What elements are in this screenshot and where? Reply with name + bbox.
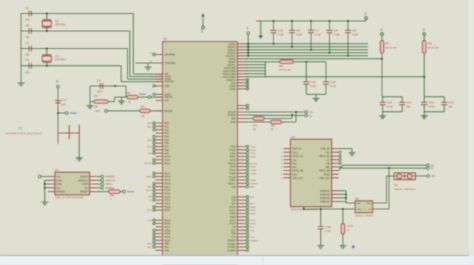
wire C6 to bus (291, 33, 293, 47)
wire R9 out (120, 191, 123, 193)
pin U1 right PGMD1 (238, 243, 245, 245)
svg-text:SHIELD1: SHIELD1 (320, 190, 331, 193)
svg-text:NC: NC (85, 187, 89, 190)
pin stub right lower power (245, 79, 247, 81)
pin U1 left PA17 (156, 186, 163, 188)
pin U1 right AD5 (238, 196, 245, 198)
pin U1 right VDDOUT (238, 55, 245, 57)
wire XOUT drop (129, 31, 131, 77)
pin U1 left PA25 (156, 219, 163, 221)
pin U1 left PA15 (156, 179, 163, 181)
pin E1 left GND (48, 183, 55, 185)
ground under R5 wire (118, 97, 125, 104)
svg-text:C1: C1 (97, 79, 101, 83)
pin S2 left 1 (350, 202, 355, 204)
capacitor C15 (303, 82, 309, 84)
svg-text:VBUS_BB: VBUS_BB (319, 170, 330, 173)
pin U4 left GND_A1 (283, 148, 290, 150)
svg-text:PCK0: PCK0 (250, 167, 256, 169)
wire XOUT32 drop (120, 66, 122, 82)
wire S2 riser 2 (388, 168, 390, 209)
pin U1 ERASE (156, 110, 163, 112)
ground JTAGSEL (145, 63, 152, 70)
pin stub right lower power (245, 85, 247, 87)
svg-text:GND_B1: GND_B1 (320, 148, 330, 151)
wire C15 drop (305, 62, 307, 82)
wire VDDCORE tie stub 4 (245, 70, 266, 72)
resistor R7 (380, 41, 384, 54)
wire SHIELD1 (339, 190, 346, 192)
pin U1 left PA29 (156, 233, 163, 235)
pin U1 left PA23 (156, 206, 163, 208)
svg-text:P1: P1 (19, 127, 23, 131)
pin U1 right TWCK1 (238, 182, 245, 184)
pin U1 left PA28 (156, 229, 163, 231)
wire cap pair rail top C13 (424, 96, 444, 98)
wire VDDCORE tie stub 2 (245, 64, 266, 66)
svg-text:SAM001 - PME0B020: SAM001 - PME0B020 (394, 188, 416, 191)
svg-text:CO: CO (326, 159, 330, 162)
svg-text:D+: D+ (310, 110, 314, 114)
svg-text:TXD1: TXD1 (250, 153, 256, 155)
svg-text:ERASE: ERASE (165, 110, 174, 113)
pin E1 left Key (48, 187, 55, 189)
pin U1 right PCK0 (238, 166, 245, 168)
capacitor C8 (329, 21, 331, 30)
resistor R5 (127, 95, 138, 99)
svg-text:BR2032-GNT: BR2032-GNT (279, 70, 292, 72)
wire XIN drop (132, 14, 134, 75)
svg-text:TST: TST (165, 100, 170, 103)
ground U4 GND_B (349, 149, 356, 156)
wire USB line A (339, 166, 342, 168)
svg-text:SHIELD4: SHIELD4 (320, 201, 331, 204)
pin U1 DDP (238, 118, 245, 120)
right edge scrollbar hint (469, 0, 474, 256)
wire E1 NC out (97, 187, 101, 189)
svg-text:RXD2: RXD2 (324, 173, 331, 176)
pin U1 left PA8 (156, 149, 163, 151)
resistor R6 (422, 41, 426, 54)
svg-text:C10: C10 (387, 101, 393, 105)
junction power tap (247, 49, 249, 51)
pin U1 NRST (156, 93, 163, 95)
junction C9 (347, 55, 349, 57)
pin E1 right SWDIO (90, 176, 97, 178)
wire XIN32 drop (127, 49, 129, 80)
wire S2 right to risers (378, 202, 387, 204)
wire NRST to chip (151, 96, 163, 98)
svg-text:RD: RD (149, 197, 153, 199)
junction E1 gnd2 (44, 187, 46, 189)
pin S2 right 1 (373, 202, 378, 204)
svg-text:R2: R2 (94, 94, 98, 98)
pin U1 right VDDIO4 (238, 52, 245, 54)
pin U1 right TIOB0 (238, 172, 245, 174)
pin U1 right VDDIO (238, 43, 245, 45)
wire cap pair rail bottom (382, 105, 384, 111)
svg-text:GND: GND (56, 179, 62, 182)
svg-text:3: 3 (56, 80, 58, 84)
wire DFSDM (245, 114, 305, 117)
wire C16 drop (325, 62, 327, 82)
wire VDD bus 2 (245, 46, 369, 48)
wire row XIN32 (21, 48, 128, 50)
pin E1 left GND (48, 179, 55, 181)
pin U1 left PA20 (156, 196, 163, 198)
wire R10 drop (342, 209, 344, 224)
wire to Wake terminal (58, 112, 65, 114)
pin U1 left PA13 (156, 172, 163, 174)
pin U1 right VDDIO2 (238, 46, 245, 48)
pin stub right mid (238, 108, 245, 110)
pin U1 right PB13 (238, 216, 245, 218)
svg-text:22p: 22p (406, 106, 411, 109)
pin U4 right VBUS_BA (332, 155, 339, 157)
wire R5 to terminal (138, 96, 148, 98)
pin U1 left PA1 (156, 125, 163, 127)
svg-text:R6: R6 (428, 42, 432, 46)
pin stub right mid (238, 105, 245, 107)
pin U1 left PA14 (156, 176, 163, 178)
wire RESET to R9 (97, 191, 109, 193)
junction X2 bottom (46, 30, 48, 32)
resistor R4 (253, 117, 264, 121)
ground left rail (18, 79, 25, 86)
svg-text:SWDIO: SWDIO (80, 176, 88, 179)
wire R6 column (423, 53, 425, 96)
pin U1 right RXD1 (238, 156, 245, 158)
wire C17 column (57, 88, 59, 131)
wire C14 stub (443, 97, 445, 102)
resistor R2 (94, 100, 108, 104)
svg-text:D-: D- (310, 114, 313, 118)
pin U1 left PB1 (156, 246, 163, 248)
ground arrow decoupling rail (258, 21, 263, 39)
terminal D- (305, 114, 308, 117)
svg-text:10uF: 10uF (97, 91, 103, 94)
terminal 3v3 erase (105, 110, 108, 113)
svg-text:SCK: SCK (147, 146, 152, 148)
svg-text:C3: C3 (25, 58, 29, 62)
svg-text:GND3: GND3 (229, 88, 236, 91)
svg-text:TDO: TDO (250, 230, 255, 232)
pin U1 right PGMD0 (238, 239, 245, 241)
power terminal 3V3 above C17 (57, 85, 60, 88)
wire U4 GND_B to ground (339, 148, 352, 150)
junction C8 (328, 52, 330, 54)
pin U4 left VBUS_AA (283, 155, 290, 157)
pin U1 right TCLK0 (238, 176, 245, 178)
svg-text:GND_A12: GND_A12 (292, 177, 304, 180)
junction C12 rail (272, 20, 274, 22)
svg-text:C8: C8 (334, 29, 338, 33)
terminal U4 right (339, 162, 341, 164)
pin U1 left PA5 (156, 139, 163, 141)
power terminal 3V3 R7 (381, 33, 384, 36)
pin U1 right GND (238, 82, 245, 84)
ground C13 (421, 112, 428, 119)
pin U4 right SHIELD4 (332, 201, 339, 203)
resistor R3 (271, 120, 282, 124)
pin U4 right RXD2 (332, 173, 339, 175)
svg-text:CO1: CO1 (292, 159, 298, 162)
svg-text:TIOB0: TIOB0 (250, 173, 257, 175)
svg-text:22p: 22p (25, 70, 30, 74)
pin U1 left PA10 (156, 156, 163, 158)
pin U1 right TMS (238, 233, 245, 235)
svg-text:RXD: RXD (292, 173, 297, 176)
svg-text:R3: R3 (271, 124, 275, 128)
pin U1 NRSTB (156, 96, 163, 98)
svg-text:DAC0: DAC0 (250, 206, 257, 209)
capacitor C4 (29, 11, 31, 17)
wire DFSDP (245, 111, 305, 113)
junction C6 rail (291, 20, 293, 22)
wire S2 left row (304, 208, 350, 210)
terminal U4 right (339, 159, 341, 161)
svg-text:GNDdet: GNDdet (56, 191, 65, 194)
svg-text:DDM: DDM (231, 121, 236, 124)
capacitor C6 (291, 21, 293, 30)
svg-text:R1: R1 (141, 105, 145, 109)
svg-text:0.1uF: 0.1uF (315, 34, 322, 37)
junction power tap (247, 52, 249, 54)
wire C1 right drop (125, 86, 127, 97)
wire E1 Vcc (41, 176, 48, 178)
svg-text:0.1uF: 0.1uF (296, 34, 303, 37)
svg-text:0.1uF: 0.1uF (387, 106, 394, 109)
pin U4 left RXD (283, 173, 290, 175)
pin U1 left PA3 (156, 132, 163, 134)
capacitor C13 (421, 102, 427, 104)
terminal VBUS (427, 175, 430, 178)
pin U1 right VDDCORE3 (238, 73, 245, 75)
junction power tap (247, 55, 249, 57)
svg-text:VBG: VBG (165, 85, 170, 88)
svg-text:RESET: RESET (80, 191, 89, 194)
svg-text:Wake: Wake (139, 92, 146, 96)
svg-text:PGMD0: PGMD0 (250, 240, 259, 242)
junction line B tap (388, 167, 390, 169)
svg-text:PCK1: PCK1 (250, 220, 256, 222)
svg-text:/SWCLK: /SWCLK (105, 178, 115, 182)
pin U4 right DBL (332, 166, 339, 168)
wire decoupling rail (256, 20, 366, 22)
svg-text:0.1uF: 0.1uF (352, 34, 359, 37)
pin U1 ADVREF (156, 54, 163, 56)
terminal line A (426, 164, 429, 167)
origin marker blue dot (352, 245, 355, 248)
capacitor C5 (29, 28, 31, 34)
pin U1 left PA2 (156, 129, 163, 131)
svg-text:AD4: AD4 (231, 186, 236, 189)
svg-text:3: 3 (381, 28, 383, 32)
component S3 usb connector (394, 173, 415, 180)
junction C17 node (57, 112, 59, 114)
svg-text:DA1: DA1 (292, 162, 297, 165)
pin U1 right AD6 (238, 199, 245, 201)
svg-text:PA24: PA24 (165, 209, 171, 212)
pin U1 left PA26 (156, 223, 163, 225)
junction C1 right (114, 85, 116, 87)
ground E1 (41, 198, 48, 205)
ground C15 C16 (313, 94, 320, 101)
svg-text:TWCK1: TWCK1 (250, 183, 258, 185)
resistor R10 (341, 224, 345, 235)
ground P1 (76, 154, 83, 161)
pin U1 left PA18 (156, 189, 163, 191)
capacitor C14 (441, 102, 447, 104)
wire shield collect vertical (345, 191, 347, 203)
pin U1 right TDO (238, 229, 245, 231)
wire R8 right (293, 61, 326, 63)
wire JTAGSEL to ground (136, 62, 163, 64)
pin U1 DDM (238, 121, 245, 123)
pin U1 right AD4 (238, 186, 245, 188)
svg-text:1nF: 1nF (61, 103, 66, 107)
wire VDD bus 5 (245, 55, 369, 57)
pin U4 left TCLx (283, 151, 290, 153)
svg-text:3: 3 (423, 28, 425, 32)
svg-text:TDI: TDI (250, 227, 254, 229)
wire C9 to bus (347, 33, 349, 56)
svg-text:22p: 22p (25, 53, 30, 57)
svg-text:PCK2: PCK2 (250, 224, 256, 226)
pin U1 left PA7 (156, 145, 163, 147)
capacitor C12 (273, 21, 275, 30)
wire left vertical rail (20, 14, 22, 80)
svg-text:/SWO: /SWO (105, 182, 112, 186)
wire DDM through R3 (245, 121, 271, 123)
wire R7 column (381, 53, 383, 96)
junction C7 rail (310, 20, 312, 22)
svg-text:C2: C2 (25, 41, 29, 45)
junction C12 (272, 43, 274, 45)
svg-text:RXD0: RXD0 (250, 150, 257, 152)
wire row XOUT32 (21, 65, 121, 67)
wire R2 right jog (108, 101, 115, 103)
pin U4 left DA1 (283, 162, 290, 164)
pin E1 right SWDCLK (90, 179, 97, 181)
wire SHIELD4 (339, 201, 346, 203)
power terminal 3V3 rail right (365, 17, 368, 20)
pin U1 right GND2 (238, 85, 245, 87)
terminal /SWDet (101, 186, 104, 189)
junction X1 bottom (46, 65, 48, 67)
pin U1 right PGMD2 (238, 246, 245, 248)
svg-text:BR2032-GNT: BR2032-GNT (386, 48, 398, 50)
pin U4 right SHIELD2 (332, 193, 339, 195)
component S2 body (355, 201, 373, 213)
svg-text:C17: C17 (61, 98, 67, 102)
pin U1 right DAC1 (238, 209, 245, 211)
power terminal 3V3 at VDD bus (247, 32, 250, 35)
pin U4 right DB (332, 162, 339, 164)
svg-text:NPCS1: NPCS1 (250, 163, 258, 165)
pin U1 left PA21 (156, 199, 163, 201)
pin U4 right SHIELD3 (332, 197, 339, 199)
junction R7 column (381, 58, 383, 60)
pin U1 right TWD1 (238, 179, 245, 181)
pin E1 right SWO (90, 183, 97, 185)
capacitor C2 (29, 46, 31, 52)
svg-text:SWDCLK: SWDCLK (78, 179, 89, 182)
capacitor C11 (399, 102, 405, 104)
wire C11 stub (401, 97, 403, 102)
wire R8 left (265, 61, 279, 63)
crystal X2 (42, 14, 51, 32)
pin U1 right SCK0 (238, 159, 245, 161)
pin U1 right RXD0 (238, 149, 245, 151)
wire R10 to ground (342, 234, 344, 242)
pin U1 left PA31 (156, 239, 163, 241)
svg-text:TCL: TCL (325, 151, 330, 154)
svg-text:0.1uF: 0.1uF (310, 85, 317, 88)
svg-text:S3: S3 (394, 183, 398, 187)
pin U4 right TCL (332, 151, 339, 153)
pin U4 right VBUS_BB (332, 170, 339, 172)
wire S2 upper left (346, 202, 350, 204)
pin U1 XOUT32 (156, 81, 163, 83)
capacitor C18 (318, 227, 324, 229)
pin U1 right TDI (238, 226, 245, 228)
wire cap pair rail bottom (423, 105, 425, 111)
pin U1 right VDDIN (238, 58, 245, 60)
svg-text:SHIELD2: SHIELD2 (320, 193, 331, 196)
svg-text:3v3: 3v3 (95, 109, 100, 113)
junction C7 (310, 49, 312, 51)
svg-text:C18: C18 (325, 225, 331, 229)
wire S2 riser 1 (386, 176, 388, 203)
pin U1 right GNDPLL (238, 79, 245, 81)
pin U1 right TXD1 (238, 152, 245, 154)
pin E1 left GNDdet (48, 191, 55, 193)
pin stub right lower power (245, 82, 247, 84)
svg-text:C14: C14 (448, 101, 454, 105)
junction U4 pad (303, 208, 305, 210)
terminal line B (426, 167, 429, 170)
pin U1 left PA19 (156, 192, 163, 194)
pin U1 left PB2 (156, 249, 163, 251)
resistor R8 (280, 60, 294, 64)
ground R10 (339, 242, 346, 249)
svg-text:R10: R10 (347, 224, 353, 228)
svg-text:BR2032-GNT: BR2032-GNT (428, 48, 440, 50)
capacitor C17 (55, 101, 61, 103)
svg-text:VBUS_AB: VBUS_AB (292, 170, 303, 173)
pin U1 left PA30 (156, 236, 163, 238)
junction R3 net (295, 111, 297, 113)
svg-text:TCLx: TCLx (292, 151, 299, 154)
pin U4 right SHIELD1 (332, 190, 339, 192)
pin U1 right VDDCORE (238, 67, 245, 69)
wire power tap vertical (247, 35, 249, 56)
svg-text:TCK: TCK (250, 237, 255, 239)
svg-text:0.1uF: 0.1uF (428, 106, 435, 109)
pin U1 left PA11 (156, 159, 163, 161)
wire VDD bus 1 (245, 43, 369, 45)
svg-text:PUSHBUTTON-DIGIT0410: PUSHBUTTON-DIGIT0410 (6, 133, 42, 136)
terminal /SWO (101, 183, 104, 186)
junction power tap (247, 43, 249, 45)
svg-text:TD: TD (149, 200, 152, 202)
svg-text:/SWDet: /SWDet (105, 186, 114, 190)
terminal E1 Vcc (38, 175, 41, 178)
wire C10 stub (382, 97, 384, 102)
pushbutton P1 (58, 125, 79, 148)
wire E1 SWDCLK out (97, 179, 101, 181)
